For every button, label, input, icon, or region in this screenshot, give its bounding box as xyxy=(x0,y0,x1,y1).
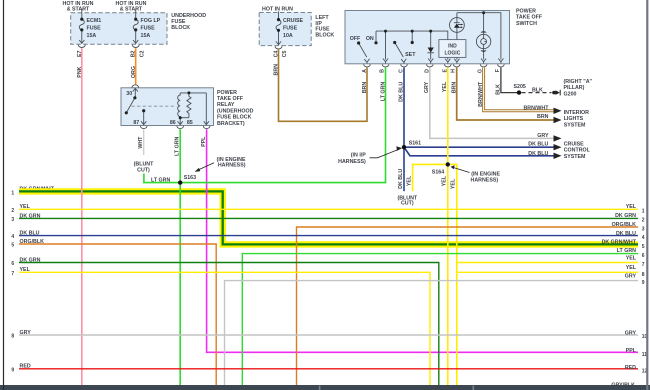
diode on pin D xyxy=(430,31,432,47)
svg-text:SYSTEM: SYSTEM xyxy=(564,154,586,160)
bus line 6R LT GRN xyxy=(242,254,638,385)
annotation arrow to S164 xyxy=(453,167,470,172)
svg-text:GRY: GRY xyxy=(20,330,32,336)
power take off relay box xyxy=(121,88,214,126)
svg-text:C4: C4 xyxy=(273,50,279,57)
svg-text:PNK: PNK xyxy=(77,66,83,77)
svg-text:DK GRN: DK GRN xyxy=(20,257,41,263)
bus line 6L DK GRN xyxy=(19,263,439,386)
svg-text:BRN/WHT: BRN/WHT xyxy=(478,81,484,107)
svg-text:BRN: BRN xyxy=(537,114,549,120)
svg-text:LT GRN: LT GRN xyxy=(617,248,636,254)
svg-text:HARNESS): HARNESS) xyxy=(471,177,499,183)
svg-text:YEL: YEL xyxy=(20,267,31,273)
bus line 3 DK GRN xyxy=(19,217,638,219)
svg-text:INTERIOR: INTERIOR xyxy=(564,110,589,116)
svg-text:PPL: PPL xyxy=(626,348,637,354)
svg-text:CUT): CUT) xyxy=(401,201,414,207)
underhood fuse block box xyxy=(71,13,167,44)
svg-text:87: 87 xyxy=(133,120,139,126)
svg-text:A: A xyxy=(362,69,368,73)
svg-text:6: 6 xyxy=(642,253,645,259)
svg-text:YEL: YEL xyxy=(626,204,637,210)
svg-text:B2: B2 xyxy=(131,50,137,57)
splice S205 xyxy=(517,90,521,94)
relay pin 30 entry arrow xyxy=(134,88,136,97)
svg-text:BLK: BLK xyxy=(532,87,543,93)
connector B2/C2 bump xyxy=(132,45,139,48)
wire YEL S164 right branch down to bottom xyxy=(448,164,457,385)
svg-text:CONTROL: CONTROL xyxy=(564,148,591,154)
svg-text:G: G xyxy=(478,69,484,73)
svg-text:DK BLU: DK BLU xyxy=(528,151,548,157)
wire BRN from CRUISE fuse down and right up to switch pin A xyxy=(279,50,368,122)
svg-text:E: E xyxy=(442,69,448,73)
relay pin 85 lead xyxy=(205,93,207,125)
svg-text:YEL: YEL xyxy=(451,178,457,189)
svg-text:HARNESS): HARNESS) xyxy=(338,159,366,165)
svg-text:ORG/BLK: ORG/BLK xyxy=(612,222,637,228)
svg-text:9: 9 xyxy=(11,367,14,373)
wire DK BLU S161 branch 2 to cruise control xyxy=(404,147,554,156)
svg-text:RED: RED xyxy=(20,364,31,370)
OFF/ON switch arm to pin A xyxy=(359,43,367,57)
svg-text:BRACKET): BRACKET) xyxy=(217,121,245,127)
right frame line xyxy=(646,0,648,390)
svg-text:C5: C5 xyxy=(282,50,288,57)
wire PNK from ECM1 fuse E7 down to bottom xyxy=(81,48,83,385)
svg-text:LT GRN: LT GRN xyxy=(380,82,386,101)
svg-text:7: 7 xyxy=(11,271,14,277)
svg-text:LOGIC: LOGIC xyxy=(444,51,460,57)
svg-text:FUSE BLOCK: FUSE BLOCK xyxy=(217,115,252,121)
svg-text:DK GRN: DK GRN xyxy=(615,213,636,219)
svg-text:DK BLU: DK BLU xyxy=(20,231,40,237)
wire BRN from switch pin H to interior lights xyxy=(457,68,554,121)
left frame line xyxy=(3,0,5,390)
svg-text:10A: 10A xyxy=(283,33,293,39)
relay coil resistor xyxy=(187,93,191,118)
svg-text:E7: E7 xyxy=(77,50,83,57)
annotation arrow to S163 xyxy=(198,163,215,171)
svg-text:YEL: YEL xyxy=(20,204,31,210)
bus line 5L ORG/BLK xyxy=(19,244,216,385)
svg-text:BLK: BLK xyxy=(495,84,501,95)
svg-text:ECM1: ECM1 xyxy=(87,18,102,24)
relay pin 86 lead xyxy=(179,118,181,125)
svg-text:(UNDERHOOD: (UNDERHOOD xyxy=(217,108,254,114)
svg-text:C: C xyxy=(398,69,404,73)
svg-text:YEL: YEL xyxy=(626,265,637,271)
switch internals xyxy=(359,13,504,64)
wire WHT from relay pin 87 (blunt cut) xyxy=(143,129,145,155)
wire BLK dashed from S205 to G200 ground xyxy=(522,92,552,94)
svg-text:SWITCH: SWITCH xyxy=(516,21,537,27)
svg-text:DK BLU: DK BLU xyxy=(399,82,405,102)
svg-text:S161: S161 xyxy=(409,141,421,147)
system arrow BRN/WHT interior lights xyxy=(554,108,562,114)
svg-text:4: 4 xyxy=(11,234,14,240)
svg-text:GRY: GRY xyxy=(537,133,549,139)
svg-text:15A: 15A xyxy=(87,33,97,39)
rail to IND LOGIC xyxy=(431,31,448,39)
svg-text:POWER: POWER xyxy=(217,90,237,96)
svg-text:TAKE OFF: TAKE OFF xyxy=(516,15,543,21)
svg-text:H: H xyxy=(451,69,457,73)
svg-text:BLOCK: BLOCK xyxy=(315,32,334,38)
svg-text:DK GRN/WHT: DK GRN/WHT xyxy=(602,239,637,245)
system arrow GRY cruise xyxy=(554,135,562,141)
svg-text:30: 30 xyxy=(126,91,132,97)
svg-text:FUSE: FUSE xyxy=(87,25,102,31)
svg-text:PILLAR): PILLAR) xyxy=(564,85,585,91)
lamp symbol xyxy=(476,34,490,48)
svg-text:S164: S164 xyxy=(432,169,444,175)
IND LOGIC box xyxy=(439,40,466,58)
svg-text:OFF: OFF xyxy=(350,36,361,42)
svg-text:5: 5 xyxy=(642,244,645,250)
svg-text:GRY/BLK: GRY/BLK xyxy=(611,382,635,388)
power take off switch box xyxy=(345,11,510,64)
relay mechanical dashed link xyxy=(132,105,177,107)
bus line 4 DK BLU xyxy=(19,235,638,237)
svg-text:DK BLU: DK BLU xyxy=(528,142,548,148)
svg-text:8: 8 xyxy=(642,272,645,278)
wire BLK from switch pin F to S205 xyxy=(501,68,519,93)
splice S164 xyxy=(446,162,450,166)
SET switch xyxy=(395,43,404,58)
svg-text:LT GRN: LT GRN xyxy=(174,136,180,155)
svg-text:7: 7 xyxy=(642,262,645,268)
wire ORG from FOG LP fuse to relay pin 30 xyxy=(135,48,137,84)
ground symbol G200 xyxy=(552,91,556,95)
relay switch arm xyxy=(126,98,135,113)
rotated connector/wire labels: E7 PNK xyxy=(77,50,501,189)
svg-text:YEL: YEL xyxy=(442,175,448,186)
bus line 9L RED full width xyxy=(19,368,638,370)
svg-text:4: 4 xyxy=(642,235,645,241)
pin B drop xyxy=(385,31,387,59)
svg-text:2: 2 xyxy=(642,218,645,224)
bus line 2 YEL xyxy=(19,208,638,210)
svg-text:HOT IN RUN: HOT IN RUN xyxy=(262,6,293,12)
svg-text:RED: RED xyxy=(625,365,636,371)
svg-text:SET: SET xyxy=(405,52,416,58)
bus line 3R ORG/BLK xyxy=(297,227,639,385)
svg-text:FOG LP: FOG LP xyxy=(141,18,161,24)
wire BRN/WHT from switch pin G to interior lights xyxy=(484,68,554,111)
svg-text:S205: S205 xyxy=(514,84,526,90)
svg-text:& START: & START xyxy=(120,7,143,13)
relay pin 87 contact and wire xyxy=(143,111,145,125)
svg-text:SYSTEM: SYSTEM xyxy=(564,122,586,128)
svg-text:GRY: GRY xyxy=(625,330,637,336)
svg-text:15A: 15A xyxy=(141,33,151,39)
relay pin 30 entry bump xyxy=(132,85,139,88)
svg-text:86: 86 xyxy=(170,120,176,126)
system arrow DK BLU cruise 2 xyxy=(554,153,562,159)
fuse CRUISE symbol xyxy=(276,11,281,45)
wire YEL from switch pin E down through S164 to bottom xyxy=(447,68,449,386)
svg-text:LIGHTS: LIGHTS xyxy=(564,116,584,122)
wire PPL from relay pin 85 down then right (line 11) xyxy=(207,129,638,352)
system arrow DK BLU cruise 1 xyxy=(554,144,562,150)
svg-text:& START: & START xyxy=(67,7,90,13)
svg-text:POWER: POWER xyxy=(516,8,536,14)
relay internals xyxy=(126,88,209,124)
svg-text:B: B xyxy=(379,69,385,73)
svg-text:DK BLU: DK BLU xyxy=(616,231,636,237)
svg-text:LT GRN: LT GRN xyxy=(151,177,170,183)
svg-text:G200: G200 xyxy=(564,91,577,97)
svg-text:CUT): CUT) xyxy=(137,168,150,174)
svg-text:9: 9 xyxy=(642,280,645,286)
svg-text:IND: IND xyxy=(448,44,457,50)
svg-text:CRUISE: CRUISE xyxy=(564,142,584,148)
svg-text:WHT: WHT xyxy=(138,136,144,149)
svg-text:GRY: GRY xyxy=(625,274,637,280)
svg-text:YEL: YEL xyxy=(442,81,448,92)
switch bottom connector bumps xyxy=(364,64,505,67)
ON contact to rail xyxy=(375,31,377,43)
svg-text:3: 3 xyxy=(11,217,14,223)
svg-text:TAKE OFF: TAKE OFF xyxy=(217,96,244,102)
svg-text:ON: ON xyxy=(366,36,374,42)
bottom dark bar xyxy=(0,385,650,390)
wire YEL S164 left branch blunt cut xyxy=(413,164,448,191)
diode triangle xyxy=(428,48,434,53)
lamp verticals / pin G xyxy=(483,13,485,34)
left I/P fuse block box xyxy=(259,13,311,46)
highlighted wire DK GRN/WHT (yellow highlight) xyxy=(19,191,638,244)
splice S161 xyxy=(402,145,406,149)
svg-text:FUSE: FUSE xyxy=(141,25,156,31)
fuse FOG LP symbol xyxy=(133,9,138,44)
svg-text:FUSE: FUSE xyxy=(283,26,298,32)
splice S163 xyxy=(178,180,182,184)
LED symbol xyxy=(450,18,465,33)
svg-text:8: 8 xyxy=(11,334,14,340)
system arrow BRN interior lights xyxy=(554,117,562,123)
svg-text:RELAY: RELAY xyxy=(217,102,235,108)
top rail to pin F xyxy=(457,13,501,60)
wire YEL right branch to bus line 8 right xyxy=(457,271,638,273)
wire LT GRN S163 branch: blunt stub, horizontal, up to switch pin B xyxy=(144,68,386,183)
fuse ECM1 symbol xyxy=(79,9,84,44)
bus line 8L GRY full width xyxy=(19,334,638,336)
svg-text:1: 1 xyxy=(11,190,14,196)
svg-text:C2: C2 xyxy=(140,50,146,57)
svg-text:PPL: PPL xyxy=(201,136,207,147)
svg-text:5: 5 xyxy=(11,243,14,249)
svg-text:(IN I/P: (IN I/P xyxy=(351,153,366,159)
wire GRY from switch pin D to cruise control xyxy=(430,68,554,139)
svg-text:D: D xyxy=(425,69,431,73)
svg-text:DK BLU: DK BLU xyxy=(398,169,404,189)
svg-text:BRN/WHT: BRN/WHT xyxy=(523,106,549,112)
bus line 9R GRY xyxy=(225,281,639,385)
wire DK BLU S161 branch 1 to cruise control xyxy=(404,146,554,148)
relay contact dots xyxy=(133,96,136,99)
svg-text:ORG: ORG xyxy=(131,66,137,78)
svg-text:85: 85 xyxy=(187,120,193,126)
relay bottom bumps 87 86 85 xyxy=(140,126,147,129)
relay coil winding xyxy=(178,93,181,118)
wire DK BLU from switch pin C through S161, blunt cut below xyxy=(403,68,405,192)
svg-text:HARNESS): HARNESS) xyxy=(218,163,246,169)
connector E7 bump xyxy=(78,45,85,48)
annotation arrow to S161 xyxy=(370,149,399,158)
LED verticals xyxy=(456,32,458,39)
svg-text:(RIGHT "A": (RIGHT "A" xyxy=(564,79,593,85)
switch contact dots xyxy=(357,41,360,44)
connector C4/C5 bump xyxy=(275,46,282,49)
svg-text:1: 1 xyxy=(642,208,645,214)
svg-text:6: 6 xyxy=(11,261,14,267)
svg-text:CRUISE: CRUISE xyxy=(283,18,303,24)
svg-text:S163: S163 xyxy=(184,175,196,181)
svg-text:YEL: YEL xyxy=(626,256,637,262)
IND LOGIC pins E H xyxy=(448,57,457,59)
svg-text:3: 3 xyxy=(642,226,645,232)
svg-text:2: 2 xyxy=(11,208,14,214)
wire YEL right branch to bus line 7 right xyxy=(457,262,638,264)
svg-text:GRY: GRY xyxy=(424,81,430,93)
main rail xyxy=(376,30,431,32)
svg-text:ORG/BLK: ORG/BLK xyxy=(20,239,45,245)
svg-text:DK GRN: DK GRN xyxy=(20,213,41,219)
wire LT GRN from relay pin 86 down to bottom xyxy=(179,129,181,385)
bus line 7L YEL xyxy=(19,272,430,385)
svg-text:YEL: YEL xyxy=(406,175,412,186)
svg-text:BLOCK: BLOCK xyxy=(171,25,190,31)
svg-text:BRN: BRN xyxy=(274,64,280,76)
svg-text:BRN: BRN xyxy=(451,82,457,94)
svg-text:BRN: BRN xyxy=(362,82,368,94)
